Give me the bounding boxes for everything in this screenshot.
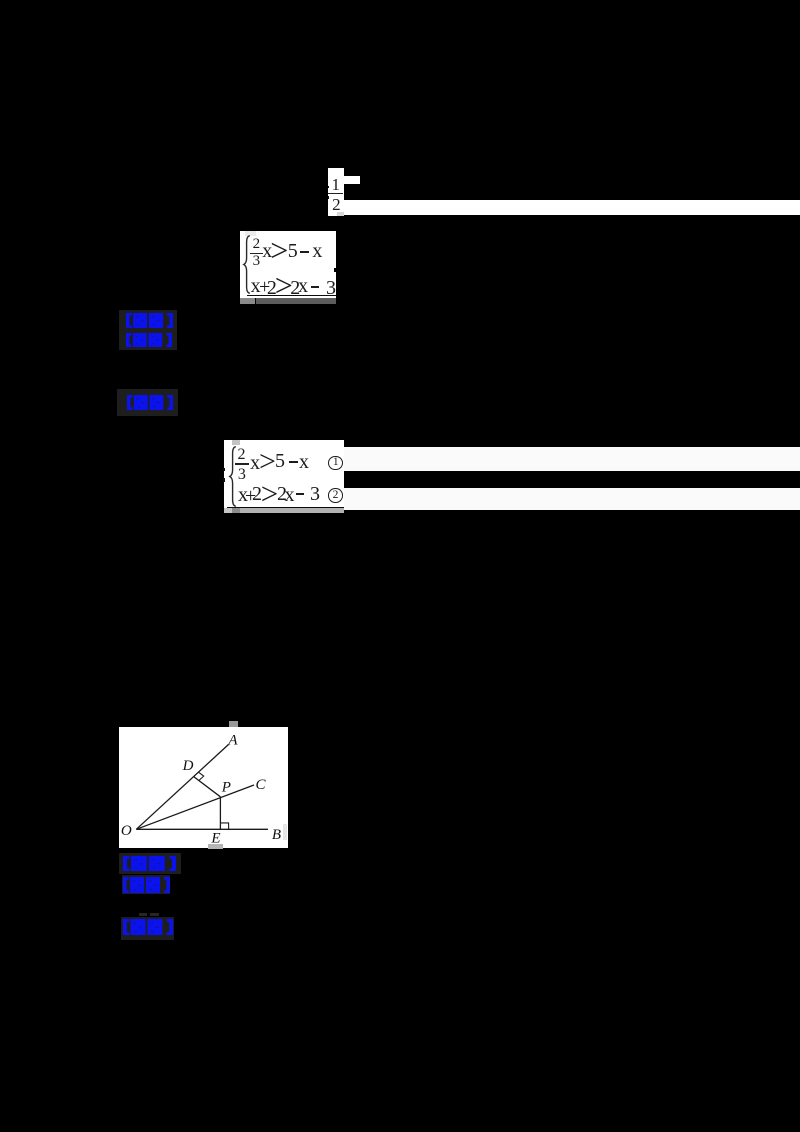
inline fraction 1/2 image box — [328, 168, 344, 216]
gray smudge below figure — [208, 844, 223, 850]
circled digit 2 — [328, 488, 342, 502]
gray smudge above figure — [229, 721, 238, 728]
black nub on fraction box left edge (lower) — [328, 196, 330, 199]
svg-text:P: P — [221, 780, 231, 796]
black underline at bottom of system 1 — [247, 295, 336, 297]
geometry figure white box — [119, 727, 288, 848]
system1 line1: fraction 2/3 — [253, 237, 261, 252]
svg-text:A: A — [228, 733, 239, 749]
gray shadow bottom of fraction box — [337, 212, 345, 217]
light gray patch top-left of system 1 — [245, 231, 256, 236]
segment PE — [219, 797, 221, 830]
fraction numerator 1 — [332, 176, 341, 193]
svg-text:E: E — [211, 831, 221, 847]
inequality system image 1 (white box) — [240, 231, 336, 298]
svg-text:O: O — [121, 823, 132, 839]
blue label row F background — [121, 917, 175, 940]
white strip right of system2 line2 — [344, 488, 800, 511]
segment DP — [194, 777, 221, 797]
blue label row D background — [119, 853, 181, 874]
black nub on system2 left edge (upper) — [223, 468, 225, 471]
black nub on system1 right edge — [334, 268, 336, 273]
blue label row B glyph blobs — [126, 333, 172, 347]
ray OB — [136, 829, 268, 831]
curly brace of system 2 — [228, 446, 237, 507]
black nub on fraction box left edge (upper) — [328, 186, 330, 188]
svg-text:D: D — [182, 758, 194, 774]
black nub on system2 left edge (lower) — [223, 478, 225, 481]
curly brace of system 1 — [242, 235, 251, 294]
geometry drawing — [119, 727, 287, 848]
system1 line2: x+2 > 2x - 3 — [251, 276, 261, 296]
gray shadow bar under system 1 (dark part) — [256, 298, 336, 304]
gray shadow bar under system 2 (dark) — [232, 508, 240, 512]
blue label row E glyph blobs — [123, 877, 170, 893]
gray square at top of system 2 — [232, 440, 240, 446]
svg-text:C: C — [256, 777, 267, 793]
blue label row A glyph blobs — [126, 313, 173, 328]
gray shadow bar under system 1 (left light part) — [240, 298, 256, 304]
blue label row C glyph blobs — [127, 395, 173, 410]
system2 line1: fraction 2/3 — [238, 447, 246, 463]
blue label row A background — [119, 310, 177, 351]
blue label row C background — [117, 389, 178, 416]
black underline at bottom of system 2 — [227, 507, 344, 509]
system2 line1: x > 5 - x (1) — [250, 453, 260, 473]
circled digit 1 — [328, 456, 342, 470]
white notch right of fraction box — [344, 176, 360, 184]
system1 line1: x > 5 - x — [262, 241, 272, 261]
gray shadow bar under system 2 (left light) — [224, 508, 232, 512]
fraction denominator 2 — [332, 196, 341, 213]
ray OC — [136, 785, 254, 829]
svg-text:B: B — [272, 827, 281, 843]
right angle mark at D — [199, 772, 204, 780]
blue label row F glyph blobs — [123, 919, 173, 935]
inequality system image 2 (white box) — [224, 440, 344, 509]
long white strip across page — [344, 200, 800, 216]
blue label row D glyph blobs — [123, 856, 176, 871]
system2 line2: x+2 > 2x - 3 (2) — [238, 485, 248, 505]
light gray band at right edge near B — [283, 824, 287, 840]
blue label row E background — [122, 875, 170, 894]
fraction bar of 1/2 — [328, 193, 343, 194]
gray shadow bar under system 2 (medium) — [240, 508, 344, 512]
ray OA — [136, 745, 228, 830]
white strip right of system2 line1 — [344, 447, 800, 471]
right angle mark at E — [220, 823, 228, 829]
faint specks above row F — [139, 913, 147, 916]
